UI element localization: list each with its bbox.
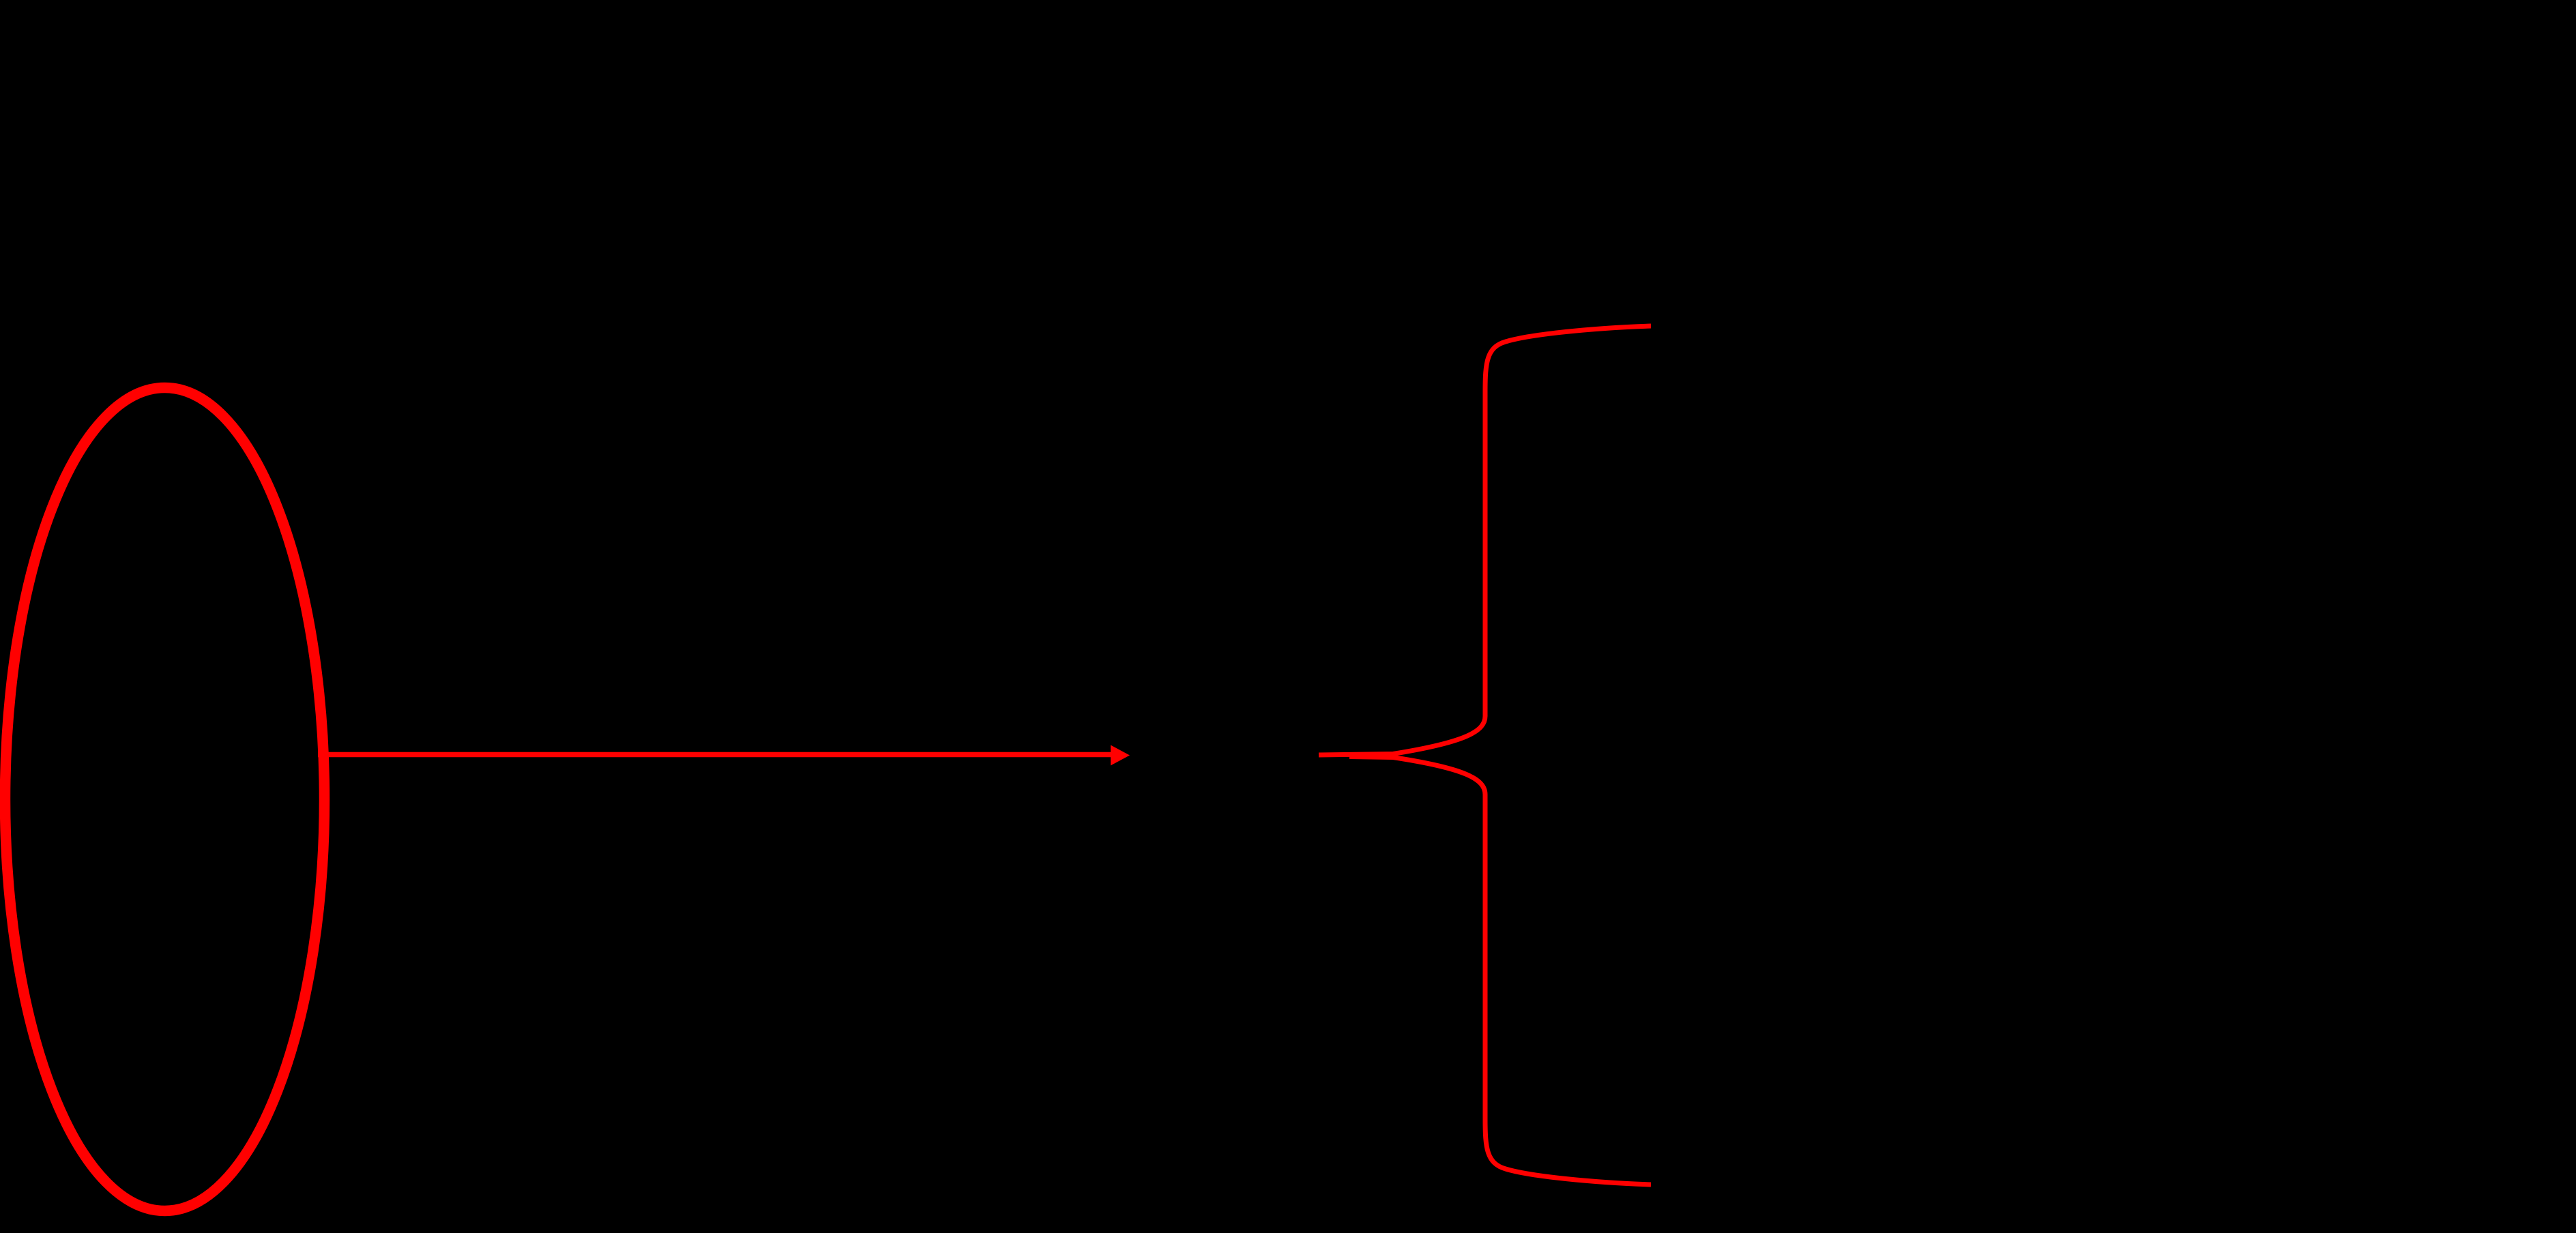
arrow shaft: [318, 752, 1112, 758]
brace lower half: [1349, 757, 1651, 1185]
brace upper half: [1319, 326, 1651, 755]
ellipse (set boundary): [5, 388, 325, 1211]
arrow head: [1111, 745, 1130, 766]
